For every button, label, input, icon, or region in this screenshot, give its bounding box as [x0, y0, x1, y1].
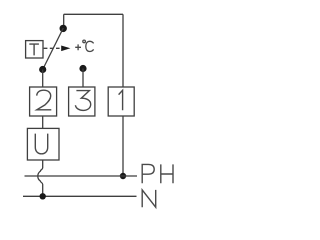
wire contact to terminal 3 [82, 69, 84, 88]
node N junction [40, 193, 46, 199]
wire top corner down to common node [63, 14, 65, 28]
line N [23, 195, 137, 197]
arrow head [61, 46, 70, 52]
thermostat T [26, 41, 43, 58]
wire terminal 1 to PH line [122, 116, 124, 176]
node A switch pivot [39, 66, 46, 73]
terminal 1 [108, 87, 134, 116]
wire down to terminal 1 [122, 14, 124, 87]
node PH junction [120, 173, 126, 179]
load U [27, 128, 59, 160]
wire U to N line with hop over PH [38, 160, 43, 196]
wire top horizontal [64, 13, 123, 15]
switch blade S [43, 28, 64, 70]
terminal 2 [30, 87, 57, 116]
label +°C [75, 40, 93, 51]
label N [142, 190, 156, 207]
wire pivot to terminal 2 [42, 70, 44, 88]
actuator dashed line [44, 47, 60, 49]
label PH [142, 164, 173, 183]
wire terminal 2 to load U [42, 116, 44, 128]
node C switch common [60, 25, 67, 32]
line PH [25, 175, 138, 177]
terminal 3 [69, 87, 95, 116]
node B open contact [79, 65, 86, 72]
